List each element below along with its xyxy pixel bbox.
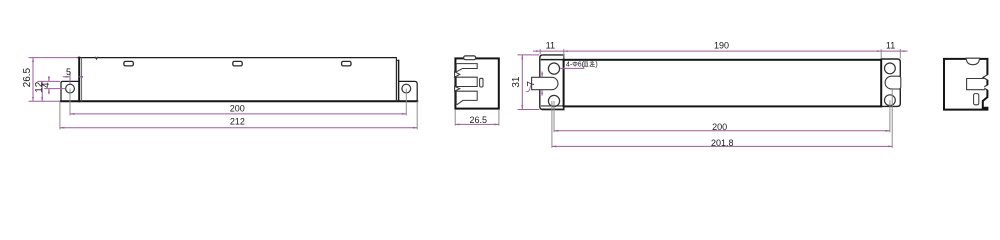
dimension 200 line <box>70 113 406 115</box>
body bottom edge <box>61 100 417 102</box>
dimensions of view 1 <box>29 58 418 130</box>
vent slot 2 <box>233 61 242 66</box>
connector cavity rectangle <box>967 79 985 90</box>
svg-text:4: 4 <box>41 82 52 88</box>
left edge notch 2 <box>455 86 460 91</box>
dimensions of view 3 <box>518 49 908 148</box>
middle channel <box>456 77 477 86</box>
squiggle leader of 7 <box>526 85 531 92</box>
svg-text:201.8: 201.8 <box>711 138 734 148</box>
top dimension line 11/190/11 <box>533 50 540 52</box>
svg-text:200: 200 <box>712 122 727 132</box>
left edge notch 1 <box>455 72 460 77</box>
extension line bottom (26.5/12) <box>29 100 61 102</box>
upper channel <box>456 64 477 72</box>
dimension 12 line <box>41 81 43 101</box>
main body (top view) <box>564 60 882 107</box>
extension line top (26.5) <box>29 57 78 59</box>
leader line of hole label <box>560 67 584 69</box>
notch in top edge <box>95 55 98 58</box>
top extension lines (grey) <box>539 49 541 55</box>
dimension 5 ext line from hole <box>69 72 71 84</box>
body right top step <box>396 59 398 61</box>
dimension line <box>455 123 499 125</box>
left bracket bottom edge emphasis <box>543 108 564 110</box>
bottom 201.8 extension lines (grey) <box>551 101 553 148</box>
hole top-right <box>885 63 896 74</box>
svg-text:11: 11 <box>546 40 555 50</box>
svg-text:31: 31 <box>511 76 522 88</box>
dimension 200 line <box>554 130 890 132</box>
dimension 201.8 line <box>552 145 892 147</box>
svg-text:26.5: 26.5 <box>470 115 488 125</box>
hole top-left <box>548 63 559 74</box>
bottom 200 extension lines (grey) <box>553 101 555 132</box>
svg-text:212: 212 <box>230 116 245 126</box>
svg-text:200: 200 <box>230 103 245 113</box>
vent slot 1 <box>124 61 133 66</box>
body left end cap outer line <box>78 58 80 102</box>
left ear hole <box>66 84 75 93</box>
left mounting ear <box>61 81 79 101</box>
body left end cap inner line <box>81 58 83 102</box>
small vertical slot <box>480 78 483 87</box>
right end bracket <box>881 59 900 106</box>
right ear hole <box>402 84 411 93</box>
body right end cap outer line <box>398 60 400 101</box>
extension lines for 200 (grey, through holes) <box>69 89 71 116</box>
dimension 212 line <box>60 127 417 129</box>
left bracket top fold line <box>542 59 564 61</box>
dimension 26.5 line <box>32 58 34 102</box>
left bracket bottom fold line <box>542 105 564 107</box>
fake glyph kong <box>590 61 595 67</box>
svg-text:5: 5 <box>66 67 71 77</box>
fake glyph tong <box>583 61 595 67</box>
svg-text:11: 11 <box>886 40 895 50</box>
dimension 26.5 of view 2 <box>455 110 499 126</box>
svg-text:190: 190 <box>714 40 729 50</box>
right slot <box>885 76 901 89</box>
top bowl slot <box>966 58 979 64</box>
lower channel <box>456 91 477 104</box>
extension line hole center (4) <box>44 88 65 90</box>
top edge vent slot <box>464 56 476 60</box>
body outline (side view) top edge <box>78 57 396 59</box>
hole bottom-left <box>548 95 559 106</box>
svg-text:26.5: 26.5 <box>22 67 33 87</box>
left 31 extension lines <box>518 54 540 56</box>
extension lines for 212 (grey) <box>59 101 61 129</box>
left wire-clamp tab <box>532 77 558 89</box>
dimension 5 line (outside arrows) <box>63 76 70 78</box>
end view outline <box>455 58 498 108</box>
right mounting ear <box>399 81 418 101</box>
right edge notch 1 <box>983 75 989 81</box>
dimension 4 line (outside arrows) <box>48 76 50 81</box>
extension line ear top (12/4) <box>37 80 60 82</box>
svg-text:): ) <box>595 61 597 68</box>
right edge notch 2 <box>983 85 989 91</box>
dimension 31 line <box>521 55 523 110</box>
hole bottom-right <box>885 95 896 106</box>
svg-text:4-Φ6(: 4-Φ6( <box>566 61 585 68</box>
svg-text:7: 7 <box>526 81 537 87</box>
bottom vertical slot <box>974 94 979 105</box>
dimension 7 line (outside arrows) <box>541 72 543 78</box>
thin top line over slot <box>966 57 979 59</box>
vent slot 3 <box>342 61 351 66</box>
body right end cap inner line <box>395 58 397 102</box>
right end view outline <box>944 59 987 110</box>
extension lines <box>454 110 456 126</box>
left end bracket <box>540 55 564 110</box>
